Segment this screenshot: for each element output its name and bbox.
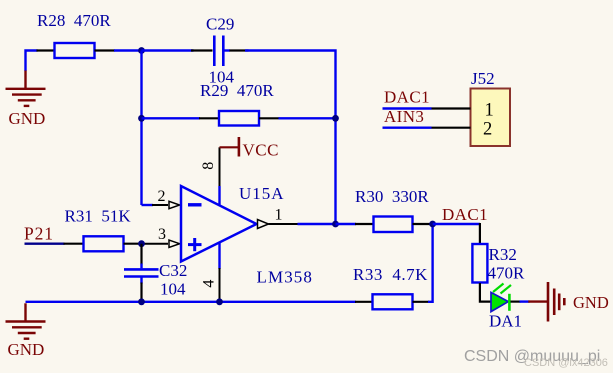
R29 right lead [259, 117, 280, 119]
svg-text:DAC1: DAC1 [384, 88, 430, 107]
svg-text:8: 8 [200, 162, 217, 170]
svg-text:4: 4 [201, 280, 218, 288]
power VCC [220, 137, 279, 160]
ground GND (right, rotated) [528, 282, 609, 322]
R31 right lead [124, 243, 142, 245]
capacitor C32 [124, 261, 187, 299]
svg-text:CSDN @lx42306: CSDN @lx42306 [524, 357, 608, 369]
junction DAC1 node [429, 221, 436, 228]
svg-text:J52: J52 [471, 69, 495, 88]
junction R29 right [332, 115, 339, 122]
svg-text:LM358: LM358 [257, 267, 314, 286]
wire P21 [25, 242, 65, 244]
wire output node to R30 [336, 223, 357, 225]
svg-text:P21: P21 [24, 224, 54, 244]
svg-text:R31 51K: R31 51K [65, 207, 132, 226]
wire R33 to DAC1 node [428, 224, 433, 302]
svg-text:1: 1 [485, 101, 494, 121]
pin 4 (V-) [201, 243, 220, 302]
wire AIN3 to J52 [383, 126, 432, 128]
pin 3 lead [142, 226, 180, 247]
svg-text:C32: C32 [159, 261, 187, 280]
J52 pin 2 lead [432, 127, 471, 129]
svg-text:2: 2 [158, 188, 166, 205]
svg-text:470R: 470R [488, 264, 526, 283]
R33 right lead [413, 301, 430, 303]
svg-text:C29: C29 [206, 15, 234, 34]
svg-text:DA1: DA1 [489, 312, 522, 331]
C32 bottom lead [140, 277, 142, 284]
ground GND (bottom left) [6, 303, 46, 359]
ground GND (top left) [6, 71, 46, 129]
svg-text:VCC: VCC [243, 141, 279, 160]
J52 pin 1 lead [432, 107, 471, 109]
svg-text:R30 330R: R30 330R [355, 187, 429, 206]
resistor R32 [472, 244, 525, 283]
svg-text:U15A: U15A [239, 184, 285, 203]
C32 top lead [140, 244, 142, 265]
R32 bottom lead [480, 283, 491, 302]
svg-text:R28 470R: R28 470R [37, 11, 111, 30]
svg-text:104: 104 [160, 280, 186, 299]
wire R28 to node A [95, 49, 142, 51]
R30 left lead [355, 223, 374, 225]
junction C32 bottom [138, 298, 145, 305]
R29 left lead [199, 117, 220, 119]
R31 left lead [64, 243, 85, 245]
wire C29 to output node vertical [245, 51, 336, 225]
wire node A to C29 [142, 49, 194, 51]
svg-text:DAC1: DAC1 [442, 205, 488, 224]
svg-text:GND: GND [9, 109, 46, 128]
R33 left lead [355, 301, 373, 303]
pin 8 (V+) [200, 147, 219, 204]
svg-text:R29 470R: R29 470R [200, 81, 274, 100]
op-amp U15A [181, 184, 313, 286]
resistor R29 [200, 81, 274, 126]
R30 right lead [413, 223, 433, 225]
LED right lead [511, 301, 521, 303]
C29 right lead [225, 49, 231, 51]
svg-text:3: 3 [158, 226, 166, 243]
wire from GND to R28 [26, 51, 56, 72]
wire pin1 to output node [298, 223, 336, 225]
wire LED to GND [520, 300, 530, 302]
svg-text:GND: GND [8, 340, 45, 359]
R32 top lead [479, 223, 481, 244]
pin 1 output [258, 206, 299, 228]
svg-text:R33 4.7K: R33 4.7K [353, 265, 428, 284]
wire DAC1 node to R32 [433, 223, 480, 225]
svg-text:AIN3: AIN3 [384, 107, 424, 126]
resistor R31 [65, 207, 132, 252]
connector J52 [471, 69, 511, 146]
svg-text:1: 1 [275, 206, 283, 223]
junction node A top [138, 47, 145, 54]
junction R29 left [138, 115, 145, 122]
wire DAC1 to J52 [383, 107, 432, 109]
junction pin4 bottom [216, 298, 223, 305]
wire node A vertical [140, 51, 142, 206]
C29 left lead [191, 49, 213, 51]
pin 2 lead [152, 188, 180, 209]
svg-text:R32: R32 [489, 245, 517, 264]
capacitor C29 [206, 15, 235, 87]
resistor R30 [355, 187, 429, 232]
wire node A to R29 [142, 117, 201, 119]
LED DA1 [489, 284, 522, 331]
wire R29 to output vertical [279, 117, 336, 119]
resistor R33 [353, 265, 428, 309]
resistor R28 [37, 11, 111, 58]
svg-text:GND: GND [573, 293, 609, 312]
junction pin3 node [138, 240, 145, 247]
svg-text:2: 2 [483, 120, 492, 140]
bottom ground wire [26, 301, 357, 303]
wire node A to pin2 [142, 204, 154, 206]
junction output node [332, 221, 339, 228]
